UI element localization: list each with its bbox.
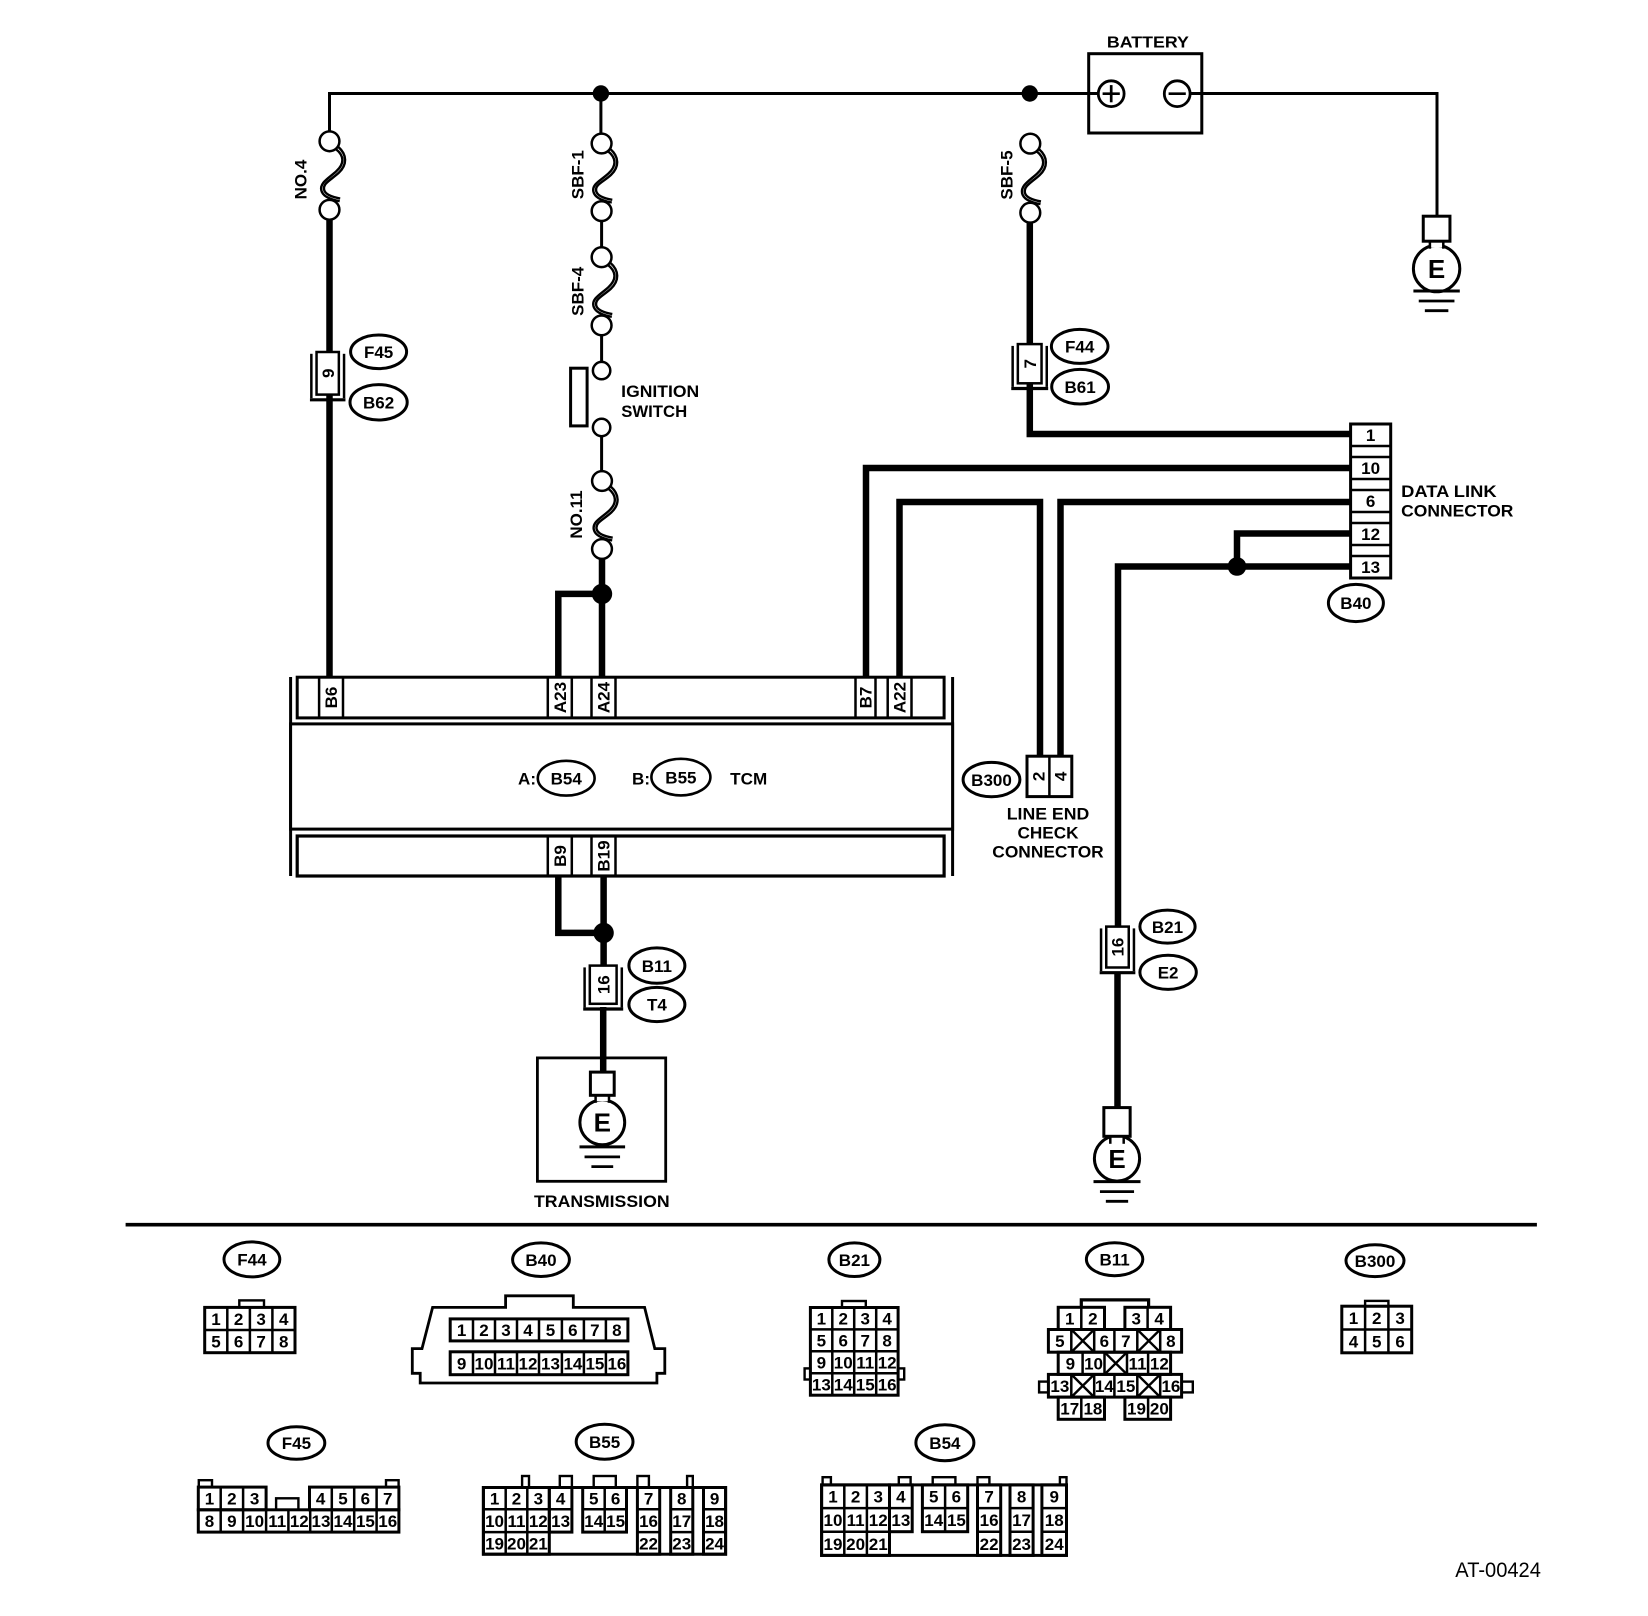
svg-text:15: 15 [356,1512,375,1531]
svg-text:9: 9 [817,1354,826,1373]
svg-text:7: 7 [1121,1332,1130,1351]
node: junction above A24 [592,584,612,604]
svg-text:A:: A: [518,769,536,788]
svg-text:11: 11 [1129,1355,1147,1374]
svg-text:12: 12 [1361,525,1380,544]
svg-text:8: 8 [612,1321,621,1340]
node: junction pin12/pin13 [1228,557,1247,576]
connector 16 (B21/E2 joint) [1100,927,1136,973]
svg-text:NO.11: NO.11 [567,490,586,538]
svg-text:5: 5 [589,1490,598,1509]
ground E (battery negative) [1413,216,1459,311]
svg-text:B7: B7 [857,687,876,709]
svg-text:CONNECTOR: CONNECTOR [992,843,1103,862]
pin A23 [551,682,570,713]
svg-text:SBF-4: SBF-4 [569,266,588,316]
svg-text:12: 12 [519,1354,538,1373]
svg-text:11: 11 [847,1511,865,1530]
svg-text:21: 21 [869,1535,888,1554]
wire: TCM B7 to data link pin 10 [866,468,1351,679]
svg-text:1: 1 [1366,426,1375,445]
svg-text:E: E [1108,1144,1125,1174]
svg-text:F44: F44 [237,1251,267,1270]
svg-text:1: 1 [490,1490,499,1509]
fuse SBF-1 [569,134,617,221]
connector label B55 (bottom) [576,1424,633,1459]
wire: TCM B19 to connector 16 [600,876,607,966]
wire: SBF-5 to data link pin 1 [1030,223,1351,434]
node: junction below B19 [593,923,613,943]
wire: battery bus [330,94,1438,218]
connector label B11 (bottom) [1086,1243,1142,1276]
svg-text:A23: A23 [551,682,570,713]
svg-text:2: 2 [1088,1310,1097,1329]
svg-text:B55: B55 [665,768,696,787]
svg-text:19: 19 [485,1534,504,1553]
svg-text:6: 6 [1395,1332,1404,1351]
svg-text:B11: B11 [642,957,672,976]
svg-text:SBF-5: SBF-5 [998,150,1017,199]
svg-text:9: 9 [457,1354,466,1373]
svg-text:16: 16 [378,1512,397,1531]
svg-text:15: 15 [606,1512,625,1531]
svg-text:T4: T4 [647,996,667,1015]
svg-text:8: 8 [205,1512,214,1531]
connector label F44 (bottom) [224,1242,280,1277]
svg-text:9: 9 [319,369,338,378]
wire: NO.4 to TCM B6 [326,219,333,679]
svg-text:NO.4: NO.4 [292,159,311,199]
svg-text:14: 14 [1095,1377,1114,1396]
svg-text:12: 12 [1150,1355,1169,1374]
node: bus junction to SBF-5 [1022,85,1038,101]
svg-text:B11: B11 [1099,1250,1129,1269]
svg-text:13: 13 [551,1512,570,1531]
svg-text:CHECK: CHECK [1018,824,1080,843]
pin B6 [322,687,341,709]
connector label B61 [1052,369,1109,404]
wire: SBF-1 to SBF-4 [600,221,603,247]
wire: bus to SBF-1 [599,95,602,134]
ground E (transmission) [580,1072,626,1167]
pin B7 [857,687,876,709]
svg-text:B62: B62 [363,394,394,413]
svg-text:16: 16 [594,975,613,994]
connector label B62 [350,385,407,420]
svg-text:1: 1 [817,1310,826,1329]
svg-text:4: 4 [523,1321,533,1340]
svg-text:6: 6 [234,1333,243,1352]
svg-text:21: 21 [529,1534,548,1553]
svg-text:DATA LINK: DATA LINK [1401,482,1497,501]
ignition switch [571,362,700,436]
label AT-00424 [1455,1559,1541,1582]
svg-text:16: 16 [607,1354,626,1373]
svg-text:7: 7 [383,1490,392,1509]
svg-text:1: 1 [1349,1309,1358,1328]
svg-text:4: 4 [1052,771,1071,781]
svg-text:7: 7 [1021,359,1040,368]
connector B54 pin grid [822,1477,1067,1555]
svg-text:B40: B40 [1340,594,1371,613]
svg-text:B9: B9 [551,845,570,867]
svg-text:6: 6 [839,1332,848,1351]
line end check connector pins 2/4 [992,756,1103,861]
TCM bottom connector strip [297,836,944,876]
svg-text:TRANSMISSION: TRANSMISSION [534,1192,670,1211]
svg-text:10: 10 [485,1512,504,1531]
fuse NO.11 [567,471,617,559]
TCM body (A:B54 B:B55) [291,724,953,829]
svg-text:11: 11 [497,1354,515,1373]
svg-text:E: E [594,1108,611,1138]
svg-text:4: 4 [882,1310,892,1329]
connector F45 pin grid [198,1480,399,1532]
svg-text:3: 3 [256,1310,265,1329]
wire: TCM B9 branch [558,876,603,933]
connector label B21 (bottom) [829,1243,880,1277]
svg-text:24: 24 [1045,1535,1064,1554]
svg-text:5: 5 [546,1321,555,1340]
svg-text:13: 13 [541,1354,560,1373]
svg-text:1: 1 [205,1490,214,1509]
svg-text:4: 4 [279,1310,289,1329]
svg-text:17: 17 [1012,1511,1031,1530]
fuse NO.4 [292,131,345,219]
svg-text:B61: B61 [1065,378,1096,397]
svg-text:B54: B54 [929,1434,961,1453]
pin A24 [595,681,614,713]
svg-text:B40: B40 [525,1251,556,1270]
connector label B21 [1140,910,1195,943]
svg-text:8: 8 [1017,1488,1026,1507]
svg-text:E2: E2 [1158,964,1179,983]
svg-text:15: 15 [585,1354,604,1373]
svg-text:A24: A24 [595,681,614,713]
svg-text:B300: B300 [1355,1252,1396,1271]
svg-text:22: 22 [639,1534,658,1553]
svg-text:8: 8 [882,1332,891,1351]
svg-text:20: 20 [1150,1399,1169,1418]
svg-text:E: E [1428,254,1445,284]
svg-text:3: 3 [1395,1309,1404,1328]
svg-text:12: 12 [869,1511,888,1530]
svg-text:B55: B55 [589,1433,620,1452]
svg-text:7: 7 [984,1488,993,1507]
svg-text:7: 7 [590,1321,599,1340]
connector label B300 (bottom) [1346,1245,1404,1277]
svg-text:2: 2 [839,1310,848,1329]
wire: line end check pin 4 to data link pin 6 [1061,502,1351,757]
svg-text:2: 2 [1372,1309,1381,1328]
svg-text:18: 18 [705,1512,724,1531]
connector 7 (F44/B61 joint) [1011,344,1048,388]
connector B21 pin grid [805,1301,905,1395]
svg-text:F44: F44 [1065,338,1095,357]
svg-text:13: 13 [1050,1377,1069,1396]
connector label B40 [1328,584,1383,621]
svg-text:9: 9 [1049,1488,1058,1507]
svg-text:8: 8 [1166,1332,1175,1351]
svg-text:14: 14 [924,1511,943,1530]
svg-text:1: 1 [1065,1310,1074,1329]
svg-text:10: 10 [1084,1355,1103,1374]
connector label B11 [629,948,685,983]
svg-text:13: 13 [891,1511,910,1530]
svg-text:F45: F45 [282,1434,311,1453]
svg-text:15: 15 [947,1511,966,1530]
svg-text:5: 5 [817,1332,826,1351]
svg-text:4: 4 [1154,1310,1164,1329]
svg-text:SWITCH: SWITCH [621,402,687,421]
transmission box [537,1058,665,1181]
svg-text:14: 14 [563,1354,582,1373]
svg-text:16: 16 [980,1511,999,1530]
svg-text:15: 15 [856,1375,875,1394]
wire: NO.11 to TCM A24 [599,559,606,679]
svg-text:19: 19 [823,1535,842,1554]
svg-text:12: 12 [529,1512,548,1531]
fuse SBF-5 [998,134,1046,223]
svg-text:11: 11 [268,1512,286,1531]
wire: SBF-4 to ignition switch [600,335,603,362]
svg-text:4: 4 [316,1490,326,1509]
svg-text:18: 18 [1045,1511,1064,1530]
svg-text:13: 13 [812,1375,831,1394]
connector F44 pin grid [205,1300,295,1352]
svg-text:3: 3 [501,1321,510,1340]
svg-text:12: 12 [878,1354,897,1373]
svg-text:CONNECTOR: CONNECTOR [1401,502,1513,521]
svg-text:7: 7 [644,1490,653,1509]
svg-text:4: 4 [896,1488,906,1507]
svg-text:10: 10 [1361,459,1380,478]
svg-text:3: 3 [860,1310,869,1329]
connector B40 pin grid [412,1296,665,1383]
svg-text:7: 7 [860,1332,869,1351]
label TRANSMISSION [534,1192,670,1211]
svg-text:2: 2 [234,1310,243,1329]
svg-text:6: 6 [1366,492,1375,511]
svg-text:A22: A22 [891,682,910,713]
svg-text:6: 6 [568,1321,577,1340]
svg-text:6: 6 [1100,1332,1109,1351]
svg-text:2: 2 [512,1490,521,1509]
connector 9 (F45/B62 joint) [310,352,346,400]
svg-text:20: 20 [846,1535,865,1554]
TCM top connector strip [297,677,944,718]
svg-text:10: 10 [823,1511,842,1530]
data link connector B40 [1351,424,1514,578]
svg-text:17: 17 [1060,1399,1079,1418]
svg-text:LINE END: LINE END [1007,804,1090,823]
svg-text:9: 9 [227,1512,236,1531]
ground E (E2) [1094,1108,1141,1202]
battery [1089,34,1202,133]
svg-text:8: 8 [677,1490,686,1509]
connector label T4 [629,987,685,1021]
svg-text:16: 16 [639,1512,658,1531]
wire: connector 16 to transmission [600,1007,607,1073]
svg-text:3: 3 [534,1490,543,1509]
svg-text:14: 14 [334,1512,353,1531]
svg-text:5: 5 [1372,1332,1381,1351]
connector label F45 [351,335,407,369]
svg-text:10: 10 [245,1512,264,1531]
TCM outer bracket lines [291,677,953,876]
svg-text:7: 7 [256,1333,265,1352]
svg-text:B:: B: [632,769,650,788]
svg-text:13: 13 [312,1512,331,1531]
svg-text:6: 6 [952,1488,961,1507]
svg-text:20: 20 [507,1534,526,1553]
pin A22 [891,682,910,713]
svg-text:5: 5 [929,1488,938,1507]
svg-text:14: 14 [834,1375,853,1394]
pin B9 [551,845,570,867]
svg-text:24: 24 [705,1534,724,1553]
node: bus junction to SBF-1 [593,85,609,101]
svg-text:12: 12 [290,1512,309,1531]
svg-text:2: 2 [1029,772,1048,781]
svg-text:18: 18 [1083,1399,1102,1418]
svg-text:1: 1 [211,1310,220,1329]
svg-text:4: 4 [556,1490,566,1509]
svg-text:11: 11 [508,1512,526,1531]
svg-text:23: 23 [672,1534,691,1553]
svg-text:16: 16 [1161,1377,1180,1396]
wire: TCM A22 to line end check pin 2 [900,502,1041,757]
svg-text:14: 14 [584,1512,603,1531]
connector B300 pin grid [1342,1301,1412,1353]
svg-text:10: 10 [834,1354,853,1373]
svg-text:B19: B19 [595,840,614,871]
svg-text:BATTERY: BATTERY [1107,34,1189,51]
svg-text:IGNITION: IGNITION [621,382,699,401]
svg-text:AT-00424: AT-00424 [1455,1559,1541,1582]
svg-text:16: 16 [878,1375,897,1394]
connector label B54 (bottom) [916,1425,974,1461]
svg-text:15: 15 [1116,1377,1135,1396]
svg-text:B21: B21 [1152,918,1183,937]
connector label B300 [963,762,1020,796]
wire: data link pin 13 to connector 16 [1118,567,1351,929]
svg-text:11: 11 [856,1354,874,1373]
svg-text:22: 22 [980,1535,999,1554]
svg-text:3: 3 [873,1488,882,1507]
svg-text:5: 5 [1055,1332,1064,1351]
svg-text:17: 17 [672,1512,691,1531]
wire: ignition switch to NO.11 [600,436,603,471]
svg-text:B6: B6 [322,687,341,709]
svg-text:4: 4 [1349,1332,1359,1351]
svg-text:13: 13 [1361,558,1380,577]
wire: connector 16 to ground [1114,974,1121,1108]
svg-text:23: 23 [1012,1535,1031,1554]
svg-text:5: 5 [211,1333,220,1352]
pin B19 [595,840,614,871]
svg-text:1: 1 [828,1488,837,1507]
connector 16 (B11/T4 joint) [583,966,623,1009]
svg-text:TCM: TCM [730,769,767,788]
connector label F44 [1051,329,1108,363]
svg-text:2: 2 [851,1488,860,1507]
svg-text:2: 2 [227,1490,236,1509]
svg-text:6: 6 [361,1490,370,1509]
connector B11 pin grid [1039,1300,1193,1419]
fuse SBF-4 [569,247,617,335]
svg-text:3: 3 [250,1490,259,1509]
svg-text:B300: B300 [971,771,1012,790]
svg-text:F45: F45 [364,343,393,362]
svg-text:6: 6 [611,1490,620,1509]
svg-text:2: 2 [479,1321,488,1340]
svg-text:9: 9 [710,1490,719,1509]
svg-text:B54: B54 [551,769,583,788]
svg-text:9: 9 [1066,1355,1075,1374]
svg-text:8: 8 [279,1333,288,1352]
svg-text:3: 3 [1132,1310,1141,1329]
svg-text:16: 16 [1109,938,1128,957]
svg-text:1: 1 [457,1321,466,1340]
svg-text:5: 5 [338,1490,347,1509]
wire: branch to TCM A23 [558,594,602,679]
separator line [126,1223,1537,1227]
svg-text:SBF-1: SBF-1 [569,150,588,199]
connector label B40 (bottom) [513,1243,570,1277]
connector B55 pin grid [483,1476,725,1554]
svg-text:B21: B21 [839,1251,870,1270]
svg-text:19: 19 [1127,1399,1146,1418]
wire: data link pin 12 branch [1237,534,1351,567]
svg-text:10: 10 [475,1354,494,1373]
connector label F45 (bottom) [268,1427,325,1460]
connector label E2 [1140,955,1196,989]
